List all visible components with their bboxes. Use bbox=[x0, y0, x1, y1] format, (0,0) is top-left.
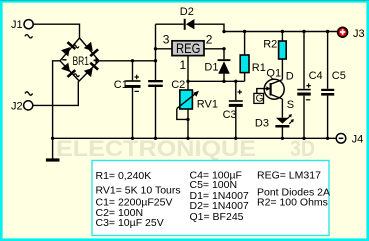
svg-text:3: 3 bbox=[163, 33, 170, 47]
svg-text:RV1: RV1 bbox=[197, 99, 218, 111]
wire J1 to bridge top bbox=[33, 24, 79, 38]
svg-text:C5: C5 bbox=[332, 70, 346, 82]
diode on top-left edge (points NE) bbox=[61, 41, 76, 57]
connector J1 bbox=[11, 19, 33, 38]
connector J2 bbox=[11, 92, 33, 113]
diode on bottom-left edge (points SE) bbox=[61, 62, 76, 78]
capacitor C1 bbox=[114, 61, 141, 139]
svg-text:C1: C1 bbox=[114, 79, 128, 91]
output rail wire bbox=[224, 31, 337, 33]
svg-text:R2= 100 Ohms: R2= 100 Ohms bbox=[257, 197, 328, 209]
diode D2 bbox=[156, 6, 225, 31]
svg-text:2: 2 bbox=[206, 33, 213, 47]
svg-text:1: 1 bbox=[180, 58, 187, 72]
svg-text:C3= 10µF 25V: C3= 10µF 25V bbox=[96, 217, 164, 229]
pin 2 wire bbox=[204, 48, 224, 50]
resistor R2 bbox=[263, 32, 286, 80]
watermark ELECTRONIQUE 3D bbox=[56, 136, 315, 161]
svg-text:REG: REG bbox=[176, 40, 201, 56]
connector J4 bbox=[336, 134, 363, 146]
wiper arrow bbox=[177, 92, 198, 109]
potentiometer RV1 bbox=[177, 81, 218, 138]
capacitor C3 bbox=[223, 81, 243, 138]
svg-text:R1: R1 bbox=[252, 62, 266, 74]
svg-text:Q1: Q1 bbox=[266, 67, 281, 79]
svg-text:RV1= 5K 10 Tours: RV1= 5K 10 Tours bbox=[96, 185, 181, 197]
capacitor C2 bbox=[148, 24, 185, 138]
svg-text:REG= LM317: REG= LM317 bbox=[257, 169, 321, 181]
wire bridge minus stub down to ground bus bbox=[53, 61, 60, 159]
svg-text:J2: J2 bbox=[11, 100, 23, 112]
capacitor C4 bbox=[297, 32, 322, 139]
svg-text:BR1: BR1 bbox=[73, 54, 90, 68]
svg-text:G: G bbox=[256, 94, 264, 105]
svg-text:Q1= BF245: Q1= BF245 bbox=[190, 211, 244, 223]
pin 3 wire bbox=[156, 48, 173, 50]
capacitor C5 bbox=[321, 32, 346, 139]
svg-text:C3: C3 bbox=[223, 109, 237, 121]
wire J2 to bridge bottom bbox=[33, 81, 79, 105]
svg-text:J3: J3 bbox=[353, 28, 365, 40]
pin 1 wire bbox=[187, 56, 189, 82]
svg-text:D: D bbox=[286, 70, 294, 82]
ground bbox=[46, 158, 60, 161]
svg-text:3D: 3D bbox=[290, 136, 315, 161]
svg-text:R1= 0,240K: R1= 0,240K bbox=[96, 170, 152, 182]
parts list box bbox=[92, 161, 330, 236]
svg-text:C4: C4 bbox=[309, 70, 323, 82]
svg-text:D2: D2 bbox=[180, 6, 194, 18]
svg-text:S: S bbox=[287, 99, 294, 111]
svg-text:J4: J4 bbox=[352, 134, 364, 146]
bridge rectifier BR1 bbox=[60, 38, 99, 81]
connector J3 bbox=[338, 27, 365, 40]
node bridge + to rail bbox=[99, 60, 156, 62]
svg-text:J1: J1 bbox=[11, 19, 23, 31]
diode on bottom-right edge (points NE) bbox=[84, 62, 99, 78]
transistor Q1 bbox=[254, 67, 294, 111]
wire pin1 node row bbox=[188, 80, 245, 82]
diode on top-right edge (points SE) bbox=[84, 42, 99, 58]
diode D1 bbox=[204, 49, 230, 82]
ground bus wire bbox=[53, 137, 337, 139]
LED D3 bbox=[255, 99, 294, 138]
resistor R1 bbox=[240, 32, 266, 82]
svg-text:D1: D1 bbox=[204, 61, 218, 73]
svg-text:D3: D3 bbox=[255, 118, 269, 130]
svg-text:R2: R2 bbox=[263, 39, 277, 51]
regulator U1 REG bbox=[156, 33, 225, 82]
